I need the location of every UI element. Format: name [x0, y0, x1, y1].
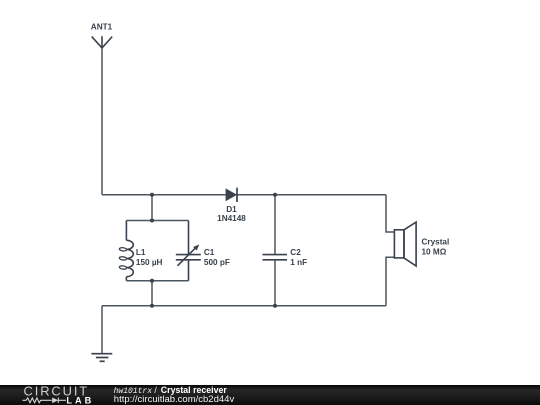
- wire tank branch top: [151, 195, 153, 221]
- svg-text:Crystal: Crystal: [422, 238, 450, 247]
- wire right side top: [386, 195, 394, 232]
- capacitor C1 arrow head: [193, 244, 199, 250]
- inductor L1 leads: [125, 221, 127, 241]
- speaker SP1 driver rect: [394, 230, 404, 258]
- wire tank branch bottom: [151, 281, 153, 306]
- logo diode triangle: [52, 398, 58, 404]
- inductor L1 coil: [126, 240, 133, 276]
- node dot tank box bottom: [150, 279, 154, 283]
- svg-text:http://circuitlab.com/cb2d44v: http://circuitlab.com/cb2d44v: [114, 394, 235, 405]
- ground: [91, 354, 112, 362]
- wire tank box bottom: [126, 280, 188, 282]
- svg-text:ANT1: ANT1: [91, 23, 113, 32]
- wire top rail: [102, 194, 386, 196]
- capacitor C1 plates: [176, 254, 201, 256]
- diode D1 cathode bar: [236, 188, 238, 202]
- svg-text:LAB: LAB: [66, 395, 94, 405]
- svg-text:C2: C2: [290, 248, 301, 257]
- svg-text:1 nF: 1 nF: [290, 258, 307, 267]
- svg-text:L1: L1: [136, 248, 146, 257]
- wire tank box top: [126, 220, 188, 222]
- svg-text:C1: C1: [204, 248, 215, 257]
- wire C2 lower stem: [274, 260, 276, 305]
- antenna ANT1: [92, 36, 113, 48]
- node dot top rail / C2: [273, 193, 277, 197]
- wire ground drop: [101, 306, 103, 354]
- node dot top rail / tank: [150, 193, 154, 197]
- node dot bottom rail / C2: [273, 304, 277, 308]
- node dot bottom rail / tank: [150, 304, 154, 308]
- svg-text:10 MΩ: 10 MΩ: [422, 248, 447, 257]
- svg-text:150 µH: 150 µH: [136, 258, 163, 267]
- wire C2 upper stem: [274, 195, 276, 254]
- svg-text:1N4148: 1N4148: [217, 214, 246, 223]
- speaker SP1 cone: [404, 222, 416, 266]
- wire bottom rail: [102, 305, 386, 307]
- diode D1 triangle: [226, 188, 237, 201]
- wire antenna stem down to top rail: [101, 48, 103, 195]
- logo resistor zigzag + diode wire: [23, 398, 67, 403]
- node dot tank box top: [150, 219, 154, 223]
- svg-text:D1: D1: [226, 205, 237, 214]
- capacitor C2 plates: [263, 254, 288, 256]
- wire right side bottom: [386, 257, 394, 306]
- capacitor C1 leads: [188, 221, 190, 255]
- capacitor C1 arrow line: [178, 247, 197, 266]
- svg-text:500 pF: 500 pF: [204, 258, 230, 267]
